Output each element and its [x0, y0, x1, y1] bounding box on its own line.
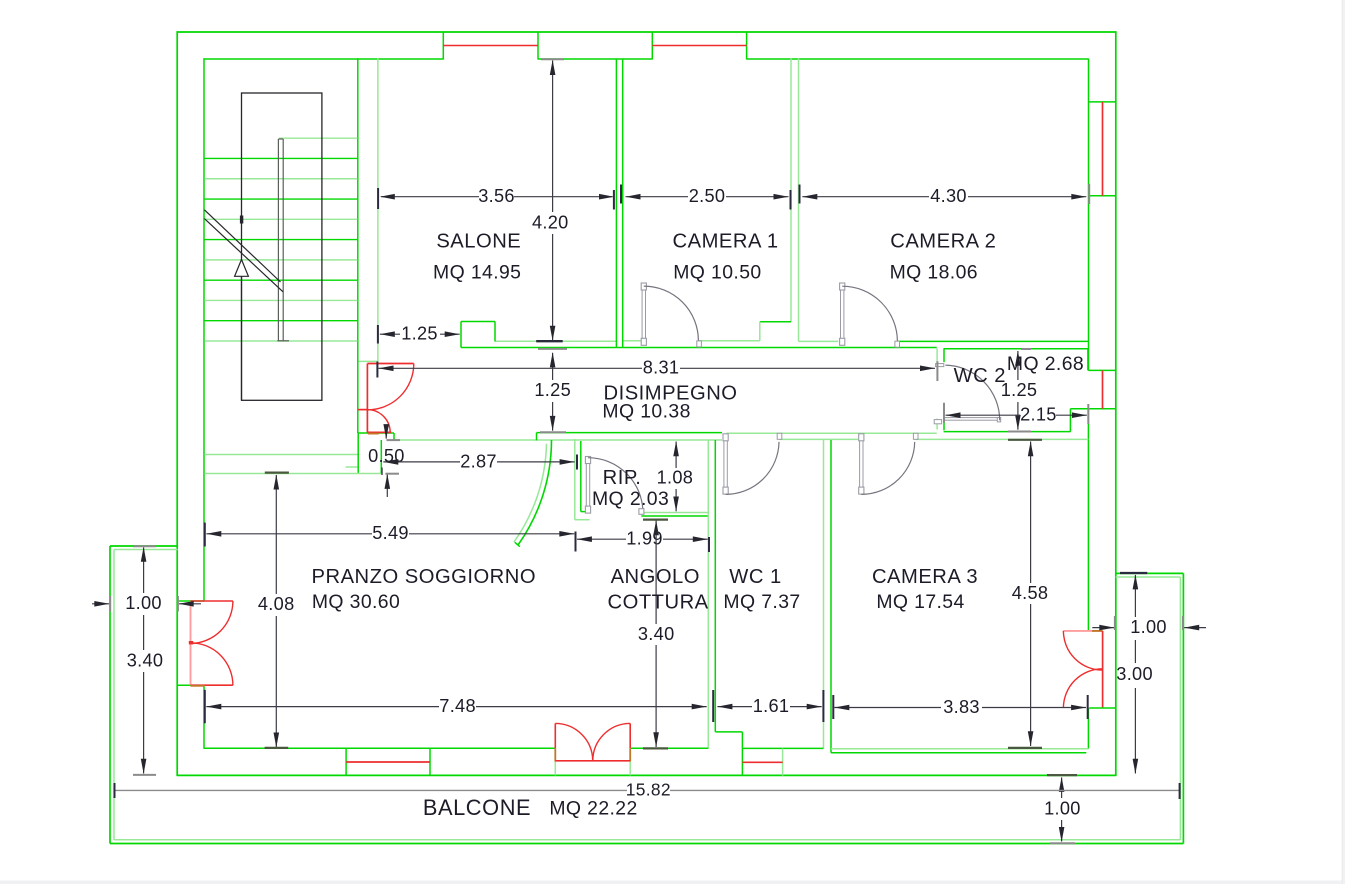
label CAMERA 3	[872, 566, 978, 588]
door D8 french (pranzo-balcone)	[555, 723, 630, 775]
svg-text:1.25: 1.25	[1001, 380, 1038, 400]
label MQ 30.60	[312, 591, 400, 613]
corridor top wall upper face segments	[623, 340, 1089, 343]
svg-text:3.40: 3.40	[638, 624, 675, 644]
svg-text:4.20: 4.20	[532, 212, 569, 232]
dim 2.87 (entry to rip)	[383, 451, 577, 471]
svg-text:1.61: 1.61	[753, 696, 790, 716]
dim 1.25 (salone niche)	[378, 324, 460, 344]
svg-text:0.50: 0.50	[368, 446, 405, 466]
wc1 floor + niche	[715, 732, 823, 749]
svg-text:MQ 2.68: MQ 2.68	[1007, 353, 1084, 375]
label MQ 18.06	[890, 262, 978, 284]
window W4 right (wc 2)	[1070, 370, 1116, 408]
dim 3.56 (salone width)	[378, 186, 614, 209]
svg-text:4.58: 4.58	[1012, 583, 1049, 603]
window W2 top (camera 1)	[652, 32, 746, 60]
svg-text:MQ 18.06: MQ 18.06	[890, 262, 978, 284]
svg-text:COTTURA: COTTURA	[608, 591, 709, 613]
svg-text:1.00: 1.00	[1130, 617, 1167, 637]
entry lower wall	[346, 433, 394, 474]
dim 2.50 (camera1 width)	[621, 185, 791, 210]
window W5 bottom (wc 1)	[742, 732, 782, 776]
wall: outer right	[1115, 31, 1117, 776]
dim 0.50 (entry wall)	[368, 424, 405, 497]
curved wall (angolo cottura)	[514, 440, 552, 547]
dim 1.00 (left balcony width)	[92, 593, 201, 613]
wall: inner left face	[203, 58, 205, 749]
svg-text:CAMERA 3: CAMERA 3	[872, 566, 978, 588]
svg-text:1.00: 1.00	[125, 593, 162, 613]
right window edge strip	[1342, 0, 1345, 884]
stair railing	[277, 139, 289, 341]
wall wc1/camera3	[824, 440, 832, 753]
door D7 (camera 3)	[859, 433, 918, 494]
dim 5.49 (pranzo width)	[205, 523, 575, 547]
svg-text:1.25: 1.25	[534, 380, 571, 400]
dim 1.25 (corridor height)	[534, 349, 571, 432]
wc2 bottom wall	[944, 431, 1071, 433]
stairwell right wall	[357, 58, 359, 433]
wall: outer bottom	[177, 774, 1116, 776]
label BALCONE	[423, 795, 531, 820]
label MQ 17.54	[876, 591, 964, 613]
pranzo top wall	[204, 440, 381, 474]
svg-text:2.15: 2.15	[1020, 405, 1057, 425]
svg-text:MQ 2.03: MQ 2.03	[592, 488, 669, 510]
salone floor line	[495, 340, 616, 342]
label MQ 14.95	[433, 262, 521, 284]
svg-text:WC 1: WC 1	[729, 566, 781, 588]
label DISIMPEGNO	[604, 383, 738, 405]
corridor bottom wall top face	[537, 432, 937, 435]
door D3 (wc 2)	[934, 364, 1001, 424]
svg-text:2.87: 2.87	[460, 451, 497, 471]
svg-text:RIP.: RIP.	[603, 467, 642, 489]
dim 4.58 (camera3 height)	[1008, 440, 1048, 748]
pranzo floor	[204, 747, 708, 749]
label CAMERA 2	[890, 230, 996, 252]
wall camera2 right inner face	[1087, 59, 1089, 749]
svg-text:CAMERA 1: CAMERA 1	[673, 230, 779, 252]
label MQ 10.38	[602, 401, 690, 423]
svg-text:CAMERA 2: CAMERA 2	[890, 230, 996, 252]
label RIP.	[603, 467, 642, 489]
label MQ 2.03	[592, 488, 669, 510]
wc2 right wall + step	[1070, 349, 1088, 432]
window W1 top (salone)	[443, 32, 538, 60]
door D1 (camera 1)	[641, 283, 701, 347]
door D6 (wc 1)	[723, 433, 782, 494]
dim 15.82 (balcony length)	[115, 779, 1181, 799]
svg-text:MQ 10.50: MQ 10.50	[673, 262, 761, 284]
label CAMERA 1	[673, 230, 779, 252]
dim 3.83 (camera3 width)	[833, 695, 1087, 719]
dim 1.99 (rip width)	[576, 529, 710, 552]
stair treads	[204, 138, 357, 341]
dim 2.15 (wc2 width)	[944, 403, 1088, 425]
svg-text:4.30: 4.30	[930, 186, 967, 206]
svg-text:2.50: 2.50	[689, 186, 726, 206]
salone left wall	[358, 59, 378, 362]
wall: outer top	[177, 31, 1116, 33]
door D5 (rip)	[585, 457, 644, 515]
dim 1.08 (rip height)	[657, 441, 694, 511]
label COTTURA	[608, 591, 709, 613]
dim 1.00 (right balcony width)	[1092, 616, 1206, 637]
dim 4.20 (salone height)	[532, 59, 569, 341]
kitchen top wall left end	[536, 433, 538, 441]
svg-text:MQ 10.38: MQ 10.38	[602, 401, 690, 423]
svg-text:1.25: 1.25	[401, 324, 438, 344]
svg-text:SALONE: SALONE	[436, 230, 521, 252]
label ANGOLO	[611, 566, 700, 588]
wall camera1/camera2	[760, 59, 799, 342]
svg-text:BALCONE: BALCONE	[423, 795, 531, 820]
corridor bottom wall lower face	[395, 438, 1089, 441]
camera3 floor	[831, 749, 1088, 753]
balcony right inner rail	[1116, 577, 1181, 840]
dim 7.48 (pranzo bottom width)	[205, 690, 707, 724]
balcony left+bottom inner rail	[114, 550, 1180, 841]
label PRANZO SOGGIORNO	[312, 566, 536, 588]
svg-text:1.08: 1.08	[657, 467, 694, 487]
window W6 bottom (pranzo)	[346, 748, 430, 775]
wall: outer left	[176, 31, 178, 776]
svg-text:3.83: 3.83	[943, 697, 980, 717]
wall: inner top face	[204, 58, 1089, 60]
dim 1.25 (wc2 height)	[1001, 349, 1038, 432]
rip bottom wall	[641, 513, 708, 517]
stair ramp diagonal	[204, 210, 283, 292]
svg-text:4.08: 4.08	[258, 594, 295, 614]
wall kitchen/wc1	[708, 440, 715, 749]
dim 4.08 (pranzo height)	[258, 473, 295, 748]
dim 3.00/1.00 (right balcony height)	[1116, 573, 1153, 774]
door D4 entry (red)	[358, 364, 414, 434]
dim 8.31 (corridor length)	[377, 358, 937, 381]
svg-text:3.00: 3.00	[1116, 664, 1153, 684]
svg-text:15.82: 15.82	[626, 779, 671, 799]
svg-text:8.31: 8.31	[643, 358, 680, 378]
svg-text:1.00: 1.00	[1044, 798, 1081, 818]
svg-text:MQ 17.54: MQ 17.54	[876, 591, 964, 613]
stair flight boundary	[242, 93, 322, 400]
svg-text:MQ 30.60: MQ 30.60	[312, 591, 400, 613]
svg-text:PRANZO SOGGIORNO: PRANZO SOGGIORNO	[312, 566, 536, 588]
svg-text:ANGOLO: ANGOLO	[611, 566, 700, 588]
label MQ 7.37	[723, 591, 800, 613]
svg-text:MQ 7.37: MQ 7.37	[723, 591, 800, 613]
svg-text:WC 2: WC 2	[954, 365, 1006, 387]
dim 1.00 (bottom balcony height)	[1044, 775, 1081, 843]
stair direction arrow	[235, 216, 249, 401]
corridor end wall	[936, 348, 938, 429]
dim 3.40/1.00 (left balcony height)	[127, 546, 164, 775]
wc2 left wall	[943, 349, 945, 431]
dim 3.40 (kitchen height)	[638, 520, 675, 749]
door D10 french (camera3-balcone)	[1063, 631, 1115, 708]
wc2 top wall	[944, 348, 1088, 350]
dim 4.30 (camera2 width)	[800, 184, 1090, 206]
window W3 right (camera 2)	[1089, 102, 1116, 196]
dim 1.61 (wc1 width)	[713, 690, 823, 722]
label WC 2	[954, 365, 1006, 387]
corridor top wall lower face	[461, 347, 937, 349]
text 1.00 left balcony	[0, 0, 1, 1]
label MQ 22.22	[549, 797, 637, 819]
svg-text:7.48: 7.48	[439, 696, 476, 716]
svg-text:3.40: 3.40	[127, 650, 164, 670]
label WC 1	[729, 566, 781, 588]
svg-text:MQ 22.22: MQ 22.22	[549, 797, 637, 819]
door D2 (camera 2)	[840, 283, 900, 347]
label SALONE	[436, 230, 521, 252]
balcony left+bottom outer rail	[110, 546, 1183, 844]
label MQ 2.68	[1007, 353, 1084, 375]
svg-text:MQ 14.95: MQ 14.95	[433, 262, 521, 284]
bottom window strip	[0, 881, 1345, 884]
label MQ 10.50	[673, 262, 761, 284]
rip left wall	[575, 439, 590, 520]
balcony right outer rail	[1116, 573, 1184, 843]
salone niche pillar	[461, 322, 495, 348]
svg-text:3.56: 3.56	[478, 186, 515, 206]
stairwell bottom wall	[204, 433, 358, 455]
door D9 french (left balcone)	[178, 601, 233, 686]
svg-text:5.49: 5.49	[372, 523, 409, 543]
wall salone/camera1	[616, 59, 622, 348]
